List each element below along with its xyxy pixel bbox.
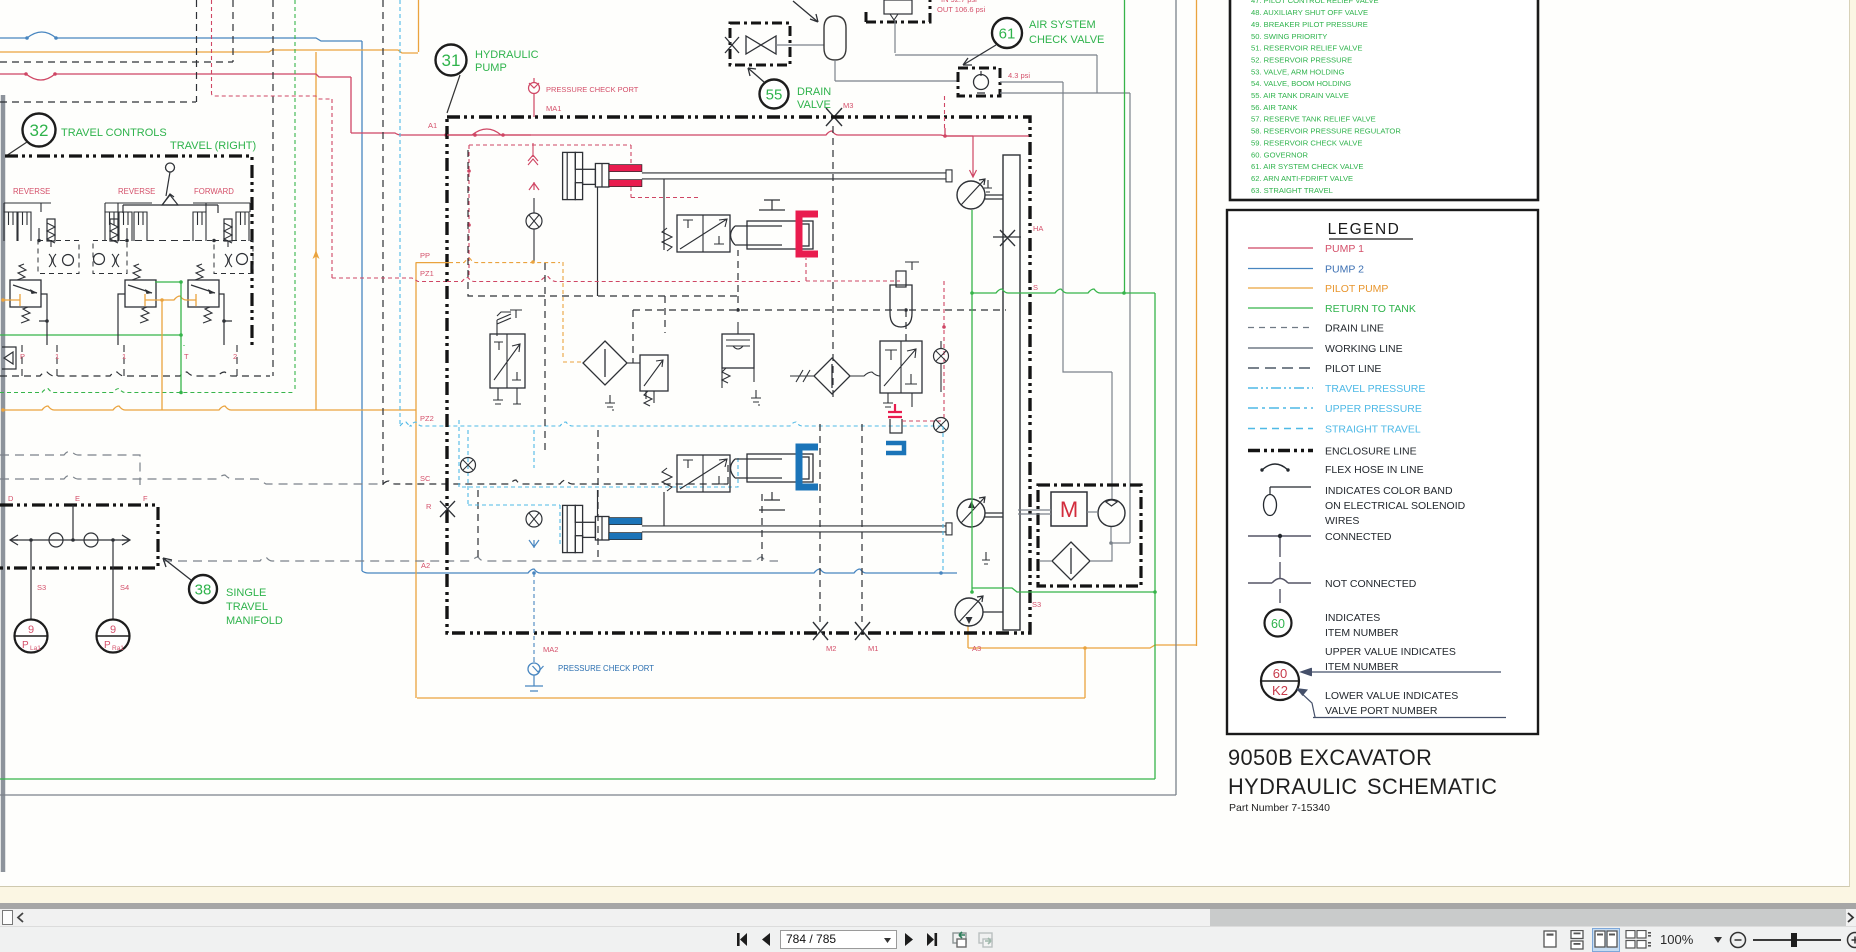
wire pump1 crimson top with flex hose (0, 74, 351, 80)
wire throttle mid (790, 370, 814, 382)
travel group A port drop (39, 294, 47, 345)
check valve up arrow (529, 182, 539, 190)
svg-text:47. PILOT CONTROL RELIEF VALVE: 47. PILOT CONTROL RELIEF VALVE (1251, 0, 1379, 5)
pilot valve pump1 (677, 215, 730, 252)
item circle 38 (189, 575, 217, 603)
wire green dashed vertical x295 (294, 0, 296, 392)
air check valve circle (974, 75, 989, 90)
blue servo bar 2 (609, 533, 642, 540)
servo feedback link lower (663, 492, 665, 526)
svg-text:HA: HA (1033, 224, 1043, 233)
wire MA2 blue dashed drop (533, 573, 535, 662)
wire gray x1112 down to governor (1111, 372, 1113, 500)
wire check valve out y82 (1000, 81, 1063, 83)
HA throttle X (993, 230, 1021, 246)
valve T top (510, 310, 522, 318)
wire orange pilot PP dashed interior (449, 259, 583, 362)
wire drain dashed y62 (0, 61, 233, 63)
svg-text:49. BREAKER PILOT PRESSURE: 49. BREAKER PILOT PRESSURE (1251, 20, 1368, 29)
legend enclosure line (1248, 449, 1313, 453)
previous view button (951, 930, 971, 950)
travel group A comb (4, 212, 17, 241)
parts list box (1230, 0, 1538, 200)
wire drain dashed riser x196 (196, 0, 198, 102)
pilot valve pump2 (677, 455, 730, 492)
wire y543 (1111, 542, 1130, 544)
cylinder pump2 (731, 459, 783, 478)
svg-text:S4: S4 (120, 583, 129, 592)
svg-text:K2: K2 (1272, 683, 1288, 698)
svg-text:TRAVEL (RIGHT): TRAVEL (RIGHT) (170, 140, 256, 152)
svg-text:SC: SC (420, 474, 431, 483)
wire gray x1063 (1062, 82, 1064, 368)
pilot valve spring (662, 228, 672, 251)
svg-text:ON ELECTRICAL SOLENOID: ON ELECTRICAL SOLENOID (1325, 500, 1466, 512)
wire orange riser to top (418, 0, 420, 52)
svg-text:MANIFOLD: MANIFOLD (226, 615, 283, 627)
manifold check circle 1 (49, 533, 63, 547)
svg-text:E: E (75, 494, 80, 503)
svg-text:57. RESERVE TANK RELIEF VALVE: 57. RESERVE TANK RELIEF VALVE (1251, 115, 1376, 124)
valve 2pos left (490, 334, 525, 388)
green riser x181 (180, 282, 182, 393)
gauge 9 PLa1 (15, 620, 48, 653)
legend drain line (1248, 327, 1313, 329)
pilot valve 2 spring (662, 468, 672, 491)
page mode single (1541, 930, 1559, 950)
travel group C top link (193, 203, 250, 212)
pilot dashed x545 (544, 263, 546, 455)
scrollbar right arrow (1846, 912, 1856, 923)
wire gray long dash y479 (0, 475, 383, 484)
enclosure air check valve 61 (958, 68, 1000, 96)
reducing valve spring (644, 391, 652, 406)
wire drain dashed riser x233 (232, 0, 234, 62)
legend flex hose (1262, 464, 1288, 470)
blue C bracket pump2 (799, 447, 818, 487)
pilot pump circle (955, 598, 983, 626)
manifold right arrow (122, 535, 130, 545)
travel group B pilot box (93, 241, 127, 274)
orange pilot link B-C (145, 294, 196, 306)
svg-text:PILOT PUMP: PILOT PUMP (1325, 283, 1388, 295)
wire pump2 blue vertical drop (361, 41, 363, 571)
svg-text:48. AUXILIARY SHUT OFF VALVE: 48. AUXILIARY SHUT OFF VALVE (1251, 8, 1368, 17)
check down arrow lower (529, 540, 539, 548)
manifold left arrow (10, 535, 18, 545)
wire gray working long y795 (0, 794, 1176, 796)
manifold E drop (72, 505, 74, 540)
svg-text:CHECK VALVE: CHECK VALVE (1029, 34, 1104, 46)
travel group B junction (125, 239, 129, 243)
check valve circle left lower (461, 458, 476, 473)
crimson dashed link to x944 (902, 420, 944, 422)
travel group C comb (193, 212, 206, 241)
wire A1 crimson into enclosure (351, 133, 531, 135)
M3 test point X (826, 108, 842, 126)
legend pilot line (1248, 367, 1313, 369)
svg-text:58. RESERVOIR PRESSURE REGULAT: 58. RESERVOIR PRESSURE REGULATOR (1251, 127, 1401, 136)
svg-text:S3: S3 (1032, 600, 1041, 609)
svg-text:REVERSE: REVERSE (118, 187, 155, 196)
svg-text:ITEM NUMBER: ITEM NUMBER (1325, 661, 1399, 673)
svg-text:9050B EXCAVATOR: 9050B EXCAVATOR (1228, 745, 1432, 770)
svg-text:M2: M2 (826, 644, 836, 653)
servo feedback link upper (663, 179, 665, 250)
group port drop 1a (56, 345, 58, 376)
pump2 drain E (982, 552, 990, 564)
check ball valve (526, 213, 542, 229)
wire crimson down to pump1 (945, 136, 977, 177)
manifold internal line (10, 539, 130, 541)
pressure check port MA2 (528, 663, 540, 675)
svg-text:NOT CONNECTED: NOT CONNECTED (1325, 578, 1417, 590)
filter diamond 1 (583, 341, 627, 385)
zoom level text (1660, 932, 1693, 947)
svg-text:MA2: MA2 (543, 645, 558, 654)
svg-text:HYDRAULIC: HYDRAULIC (475, 49, 539, 61)
pump shaft couplers (983, 195, 1003, 612)
item circle 61 (992, 18, 1022, 48)
pilot dashed drop x478 (477, 490, 479, 561)
wire green y590 (972, 588, 1155, 592)
travel group A check circle (63, 255, 74, 266)
wire orange margin vertical x1196 (1196, 0, 1198, 646)
flow control valve (722, 334, 754, 368)
wire valve to tank (776, 44, 824, 46)
M1 dashed drop (861, 424, 863, 622)
check circle lower2 (934, 418, 949, 433)
pilot dashed box servo1 (468, 150, 738, 296)
pump2 arrow mark (968, 501, 975, 508)
wire gray elbow to x1112 (1063, 368, 1112, 372)
wire green dashed y392 (0, 389, 295, 393)
svg-text:PRESSURE CHECK PORT: PRESSURE CHECK PORT (558, 664, 654, 673)
svg-text:Part Number 7-15340: Part Number 7-15340 (1229, 802, 1330, 814)
svg-text:55: 55 (766, 86, 783, 103)
zoom slider track (1753, 939, 1841, 941)
wire crimson MA1 interior (447, 129, 1029, 136)
check ball valve lower (526, 511, 542, 527)
travel group C pilot box (214, 241, 253, 274)
crimson pilot dashed box top (469, 145, 700, 278)
pointer from 32 (6, 142, 27, 156)
crimson pilot arrow symbol (528, 143, 538, 165)
legend pump2 (1248, 268, 1313, 270)
svg-text:52. RESERVOIR PRESSURE: 52. RESERVOIR PRESSURE (1251, 55, 1352, 64)
wire gray long dash y561 (163, 557, 778, 561)
svg-text:R: R (426, 502, 432, 511)
enclosure drain valve 55 (730, 23, 790, 65)
svg-text:La1: La1 (30, 645, 41, 652)
red servo bar 1 (609, 165, 642, 172)
svg-text:FLEX HOSE IN LINE: FLEX HOSE IN LINE (1325, 464, 1424, 476)
red servo bar 2 (609, 180, 642, 187)
legend 60 K2 circle (1261, 662, 1299, 700)
svg-text:TRAVEL CONTROLS: TRAVEL CONTROLS (61, 127, 167, 139)
svg-text:OUT 106.6 psi: OUT 106.6 psi (937, 5, 986, 14)
svg-text:CONNECTED: CONNECTED (1325, 531, 1392, 543)
svg-text:M1: M1 (868, 644, 878, 653)
control lever (163, 172, 174, 204)
svg-text:38: 38 (195, 581, 212, 598)
wire crimson stub x945 (944, 128, 946, 136)
M2 dashed drop (819, 424, 821, 622)
wire crimson pilot dashed drop x332 (331, 99, 333, 278)
travel group A pilot box (38, 241, 79, 274)
zoom dropdown arrow (1714, 937, 1723, 944)
wire M to circle (1087, 511, 1098, 513)
nav last page button (925, 932, 939, 947)
svg-text:M: M (1060, 497, 1078, 522)
servo rod pump2 (642, 526, 946, 532)
blue servo bar 1 (609, 518, 642, 525)
svg-text:INDICATES COLOR BAND: INDICATES COLOR BAND (1325, 485, 1453, 497)
travel group C check circle (237, 254, 248, 265)
travel group C spring top (195, 264, 204, 280)
svg-text:T: T (184, 352, 189, 361)
svg-text:56. AIR TANK: 56. AIR TANK (1251, 103, 1298, 112)
wire drain dashed y376 travel (0, 372, 270, 376)
travel group B check circle (94, 254, 105, 265)
manifold S3 drop (30, 540, 32, 620)
svg-text:63. STRAIGHT TRAVEL: 63. STRAIGHT TRAVEL (1251, 186, 1333, 195)
servo feedback rod lower (597, 490, 599, 516)
manifold check circle 2 (84, 533, 98, 547)
svg-text:STRAIGHT TRAVEL: STRAIGHT TRAVEL (1325, 424, 1421, 436)
wire green return long y779 (0, 778, 1155, 780)
page number box (780, 930, 897, 949)
M2 test X (813, 622, 828, 640)
item circle 31 (436, 45, 467, 76)
scrollbar thumb (1210, 909, 1846, 926)
zoom slider thumb (1791, 933, 1797, 947)
svg-text:9: 9 (110, 624, 116, 636)
svg-text:2: 2 (233, 352, 237, 361)
wire gray margin vertical x1176 (1175, 0, 1177, 795)
legend upper pressure (1248, 407, 1313, 409)
wire cyan dashed vertical x400 (399, 0, 401, 426)
solenoid valve right (880, 341, 922, 393)
valve 2pos spring top (497, 312, 511, 336)
crimson pilot dashed x944 upper (944, 96, 946, 128)
legend box (1227, 210, 1538, 734)
solenoid drains (883, 393, 912, 407)
wire orange lower horizontal y410 (3, 406, 416, 410)
wire orange riser x1085 (1084, 648, 1086, 698)
svg-text:AIR SYSTEM: AIR SYSTEM (1029, 19, 1096, 31)
regulator enclosure top (866, 0, 930, 22)
svg-text:PUMP 1: PUMP 1 (1325, 243, 1364, 255)
item circle 55 (760, 80, 789, 109)
travel group B comb (105, 212, 118, 241)
orange pilot tee A (3, 294, 20, 306)
group port drop 2 (236, 345, 238, 376)
svg-text:54. VALVE, BOOM HOLDING: 54. VALVE, BOOM HOLDING (1251, 79, 1351, 88)
svg-text:SCHEMATIC: SCHEMATIC (1367, 774, 1497, 799)
pointer 55 (748, 68, 764, 82)
pump1 circle (957, 181, 985, 209)
svg-text:DRAIN: DRAIN (797, 86, 831, 98)
svg-text:55. AIR TANK DRAIN VALVE: 55. AIR TANK DRAIN VALVE (1251, 91, 1349, 100)
svg-text:60: 60 (1271, 617, 1285, 631)
pressure check port MA1 (529, 83, 540, 94)
motor M box (1051, 492, 1087, 526)
M1 test X (855, 622, 870, 640)
svg-text:SINGLE: SINGLE (226, 587, 266, 599)
travel group C port drop (219, 294, 232, 345)
travel group A solenoid (47, 219, 55, 241)
enclosure governor 60 (1038, 485, 1141, 586)
svg-text:MA1: MA1 (546, 104, 561, 113)
wire pilot pump orange top (0, 50, 418, 53)
check circle right (934, 349, 949, 364)
scrollbar page icon (2, 910, 13, 925)
cropped content strip at left page edge (1, 95, 6, 872)
svg-text:53. VALVE, ARM HOLDING: 53. VALVE, ARM HOLDING (1251, 67, 1344, 76)
travel group B solenoid (110, 219, 118, 241)
legend straight travel (1248, 428, 1313, 430)
travel group A spring top (17, 264, 26, 280)
svg-text:TRAVEL: TRAVEL (226, 601, 268, 613)
orange drop x162 (161, 300, 163, 410)
svg-text:62. ARN ANTI-FDRIFT VALVE: 62. ARN ANTI-FDRIFT VALVE (1251, 174, 1353, 183)
svg-text:ITEM NUMBER: ITEM NUMBER (1325, 627, 1399, 639)
wire gray long dash y455 (0, 451, 140, 485)
svg-text:PP: PP (420, 251, 430, 260)
pointer 61 (963, 45, 996, 65)
blue dashed x943 (942, 426, 944, 573)
green link valve B to riser (155, 281, 181, 283)
travel group C valve (188, 280, 219, 307)
travel group C throttle (225, 254, 232, 267)
nav next page button (903, 932, 915, 947)
travel group B throttle (112, 254, 119, 267)
check valve P port (2, 347, 16, 369)
svg-text:Ra1: Ra1 (112, 645, 124, 652)
svg-text:P: P (104, 640, 111, 651)
wire filter1 (627, 362, 640, 364)
next view button (977, 930, 997, 950)
travel group B spring bottom (140, 307, 149, 323)
air tank capsule (824, 16, 846, 60)
svg-text:A2: A2 (421, 561, 430, 570)
travel group A junction (37, 239, 41, 243)
wire circle down (1110, 527, 1112, 543)
wire SC dashed entry (383, 462, 728, 484)
svg-text:REVERSE: REVERSE (13, 187, 50, 196)
wire A2 blue horizontal (362, 569, 957, 573)
wire green pump1 drain (971, 210, 973, 592)
legend not connected (1248, 582, 1272, 584)
wire orange branch vertical x316 with flow arrow (315, 52, 317, 410)
wire check valve out y93 (1000, 92, 1130, 94)
legend pilot pump (1248, 287, 1313, 289)
svg-text:PILOT LINE: PILOT LINE (1325, 363, 1381, 375)
accumulator bottle (890, 285, 912, 327)
pilot dashed drop x762 (761, 494, 763, 561)
wire filter left stub (1040, 560, 1052, 562)
legend connected (1248, 535, 1311, 537)
manifold S4 drop (112, 540, 114, 620)
wire green y293 (972, 289, 1155, 293)
travel group B top link (105, 203, 152, 212)
R test point X (440, 501, 455, 517)
svg-text:31: 31 (442, 51, 461, 70)
svg-text:ENCLOSURE LINE: ENCLOSURE LINE (1325, 446, 1417, 458)
servo feedback rod upper (597, 187, 599, 296)
svg-text:4.3 psi: 4.3 psi (1008, 71, 1030, 80)
drain valve bowtie (746, 36, 776, 54)
pump1 drain E (984, 180, 992, 192)
legend lower pointer (1298, 690, 1506, 718)
svg-text:VALVE PORT NUMBER: VALVE PORT NUMBER (1325, 705, 1438, 717)
pilot dashed x598 (597, 430, 599, 558)
svg-text:S: S (1033, 283, 1038, 292)
bottle T port (905, 262, 919, 270)
wire orange A3 run y648 (968, 645, 1196, 648)
svg-text:P: P (20, 352, 25, 361)
svg-text:TRAVEL PRESSURE: TRAVEL PRESSURE (1325, 383, 1425, 395)
svg-text:61. AIR SYSTEM CHECK VALVE: 61. AIR SYSTEM CHECK VALVE (1251, 162, 1363, 171)
valve 2pos drains (493, 388, 521, 404)
wire drain dashed y102 (0, 101, 196, 103)
travel group C junction (212, 239, 216, 243)
flow control spring (722, 368, 730, 383)
blue dashed box lower servo (459, 420, 738, 487)
svg-text:50. SWING PRIORITY: 50. SWING PRIORITY (1251, 32, 1327, 41)
pointer 31 (447, 75, 460, 113)
filter diamond 2 (814, 358, 850, 394)
svg-text:1: 1 (122, 352, 126, 361)
T port symbol 2 (759, 492, 785, 510)
svg-text:VALVE: VALVE (797, 99, 831, 111)
gauge 9 PRa1 (97, 620, 130, 653)
page mode continuous (1568, 930, 1586, 950)
zoom in button (1846, 931, 1856, 949)
wire pilot dashed vertical x383 (382, 0, 384, 485)
svg-text:60. GOVERNOR: 60. GOVERNOR (1251, 150, 1308, 159)
travel group B spring top (132, 264, 141, 280)
servo piston pump1 plates (563, 152, 576, 199)
svg-text:IN 92.7 psi: IN 92.7 psi (941, 0, 977, 4)
legend pump1 (1248, 247, 1313, 249)
wire crimson pilot dashed from top (212, 0, 333, 99)
legend travel pressure (1248, 387, 1313, 389)
pilot dashed links center (633, 296, 1006, 363)
svg-text:M3: M3 (843, 101, 853, 110)
svg-text:59. RESERVOIR CHECK VALVE: 59. RESERVOIR CHECK VALVE (1251, 138, 1362, 147)
svg-text:HYDRAULIC: HYDRAULIC (1228, 774, 1358, 799)
servo rod pump1 (642, 173, 946, 179)
wire regulator to right (895, 54, 1097, 56)
pump shaft rect (1003, 155, 1020, 630)
wire gray x1130 down (1129, 93, 1131, 543)
svg-text:PUMP 2: PUMP 2 (1325, 264, 1364, 276)
legend color band symbol (1264, 495, 1277, 516)
wire PZ1 crimson dashed entry (332, 278, 447, 282)
servo piston pump2 plates (563, 505, 576, 552)
travel group C spring bottom (203, 307, 212, 323)
legend return to tank (1248, 307, 1313, 309)
wire PZ2 cyan dashed into enclosure y423 (400, 422, 943, 426)
page mode two-up continuous (1625, 930, 1651, 950)
svg-text:FORWARD: FORWARD (194, 187, 234, 196)
svg-text:UPPER VALUE INDICATES: UPPER VALUE INDICATES (1325, 646, 1456, 658)
wire pilot dashed vertical x273 (272, 0, 274, 376)
wire regulator drop (894, 20, 896, 53)
svg-text:LEGEND: LEGEND (1328, 221, 1401, 238)
